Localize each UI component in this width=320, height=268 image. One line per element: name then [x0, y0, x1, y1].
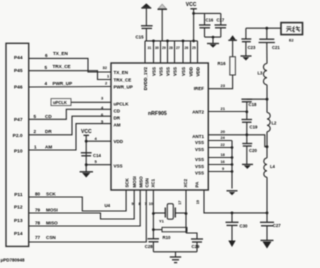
svg-text:MOSI: MOSI	[46, 207, 58, 212]
capacitor C19	[242, 112, 258, 135]
ground below C14	[80, 165, 93, 178]
svg-text:CD: CD	[114, 108, 121, 113]
wire ANT2	[208, 111, 247, 113]
svg-text:9: 9	[132, 202, 134, 206]
svg-text:P10: P10	[14, 149, 23, 155]
svg-text:C19: C19	[250, 125, 258, 130]
antenna box	[281, 23, 303, 43]
junction dots on top bus	[152, 40, 155, 43]
svg-text:VSS: VSS	[195, 157, 204, 162]
svg-text:L2: L2	[272, 121, 278, 126]
wire VDD_PA	[204, 190, 267, 213]
svg-text:26: 26	[185, 46, 189, 50]
svg-text:25: 25	[192, 46, 196, 50]
inductor L2	[267, 99, 277, 147]
svg-text:TX_EN: TX_EN	[114, 70, 129, 75]
svg-text:19: 19	[196, 200, 200, 204]
capacitor C18	[241, 99, 257, 112]
svg-text:C30: C30	[240, 223, 248, 228]
svg-text:MISO: MISO	[46, 220, 58, 225]
wire CSN	[29, 190, 147, 242]
inductor L3	[258, 64, 268, 100]
svg-text:AM: AM	[45, 144, 52, 149]
svg-text:μPD780948: μPD780948	[1, 258, 26, 263]
node VDD junction	[85, 140, 88, 143]
svg-text:VSS: VSS	[158, 67, 163, 76]
svg-text:ANT2: ANT2	[192, 109, 204, 114]
wire XC1 column	[152, 190, 154, 239]
capacitor C15	[136, 26, 153, 41]
svg-text:CSN: CSN	[144, 178, 149, 187]
svg-text:Y1: Y1	[159, 219, 165, 224]
svg-text:CSN: CSN	[46, 235, 56, 240]
VSS bus vertical	[231, 141, 233, 189]
svg-text:21: 21	[221, 106, 226, 111]
ground symbol above VSS bus	[158, 4, 168, 41]
svg-text:uPCLK: uPCLK	[114, 101, 130, 106]
svg-text:P45: P45	[14, 68, 23, 74]
svg-text:TRX_CE: TRX_CE	[114, 77, 132, 82]
wire TX_EN	[29, 58, 111, 72]
capacitor C23	[241, 28, 256, 56]
svg-text:77: 77	[35, 235, 41, 240]
wire MOSI	[29, 190, 135, 219]
wire C18 top to node A	[247, 98, 267, 100]
capacitor C27	[260, 213, 281, 240]
svg-text:C29: C29	[192, 244, 200, 249]
wire VCC to C16 C17	[194, 12, 221, 14]
ground top-left above C15	[141, 3, 151, 25]
junction dot crystal left	[152, 212, 155, 215]
svg-text:32: 32	[103, 65, 108, 70]
svg-text:3: 3	[101, 96, 104, 101]
svg-text:VSS: VSS	[181, 67, 186, 76]
capacitor C16	[199, 13, 214, 37]
svg-text:L3: L3	[258, 71, 264, 76]
svg-text:VCC: VCC	[186, 2, 197, 8]
svg-text:TX_EN: TX_EN	[53, 51, 68, 56]
svg-text:PA: PA	[195, 181, 200, 188]
wire ANT1	[208, 135, 267, 147]
wire uPCLK	[71, 101, 111, 103]
svg-text:PWR_UP: PWR_UP	[53, 81, 73, 86]
wire VSS to chip	[86, 164, 111, 166]
inductor L4	[264, 147, 276, 213]
svg-text:VSS: VSS	[165, 67, 170, 76]
svg-text:VDD: VDD	[114, 139, 124, 144]
svg-text:7: 7	[145, 202, 147, 206]
svg-text:DR: DR	[45, 129, 52, 134]
svg-text:nRF905: nRF905	[148, 111, 167, 117]
svg-text:MOSI: MOSI	[132, 176, 137, 187]
wire MISO	[29, 190, 141, 226]
svg-text:P12: P12	[14, 204, 23, 210]
svg-text:C27: C27	[273, 223, 281, 228]
wire IREF	[208, 75, 232, 89]
node junction C30	[231, 212, 234, 215]
node A junction	[266, 98, 269, 101]
svg-text:C20: C20	[249, 148, 257, 153]
svg-text:AM: AM	[114, 123, 121, 128]
svg-text:20: 20	[221, 129, 226, 134]
svg-text:80: 80	[35, 191, 41, 196]
svg-text:TRX_CE: TRX_CE	[53, 64, 71, 69]
capacitor C21	[259, 28, 281, 63]
wire antenna node	[246, 27, 281, 29]
wire SCK	[29, 190, 126, 211]
VCC supply feed	[186, 2, 197, 41]
wire VDD to chip	[86, 140, 111, 142]
ground below C27	[261, 240, 274, 248]
svg-text:E2: E2	[289, 39, 294, 43]
svg-text:78: 78	[35, 220, 41, 225]
svg-text:XC2: XC2	[183, 178, 188, 187]
svg-text:DVDD_1V2: DVDD_1V2	[143, 67, 148, 91]
svg-text:4: 4	[95, 136, 98, 141]
svg-text:6: 6	[45, 53, 48, 58]
pin stub VSS	[167, 41, 169, 63]
wire CD	[29, 109, 111, 119]
nRF905 U2 box	[111, 63, 208, 190]
svg-text:P14: P14	[14, 231, 23, 237]
svg-text:28: 28	[169, 46, 173, 50]
pin stub DVDD_1V2	[144, 41, 146, 63]
svg-text:uPCLK: uPCLK	[53, 100, 67, 105]
capacitor C20	[242, 135, 257, 164]
svg-text:PWR_UP: PWR_UP	[114, 85, 133, 90]
svg-text:VDD: VDD	[195, 66, 200, 76]
junction dot R10 left	[152, 228, 155, 231]
svg-text:L4: L4	[270, 164, 276, 169]
svg-text:P46: P46	[14, 84, 23, 90]
svg-text:23: 23	[221, 83, 226, 88]
svg-text:C18: C18	[249, 102, 257, 107]
junction dot crystal right	[185, 212, 188, 215]
capacitor C29	[191, 239, 203, 252]
svg-text:22: 22	[221, 143, 225, 147]
ground arrow above R16	[228, 35, 237, 57]
svg-text:P47: P47	[14, 117, 23, 123]
node B junction	[266, 145, 269, 148]
svg-text:P11: P11	[14, 192, 23, 198]
svg-text:P44: P44	[14, 55, 23, 61]
svg-text:CD: CD	[45, 114, 52, 119]
pin stub VDD	[190, 41, 192, 63]
top VSS bus	[145, 40, 198, 42]
svg-text:P2.0: P2.0	[13, 133, 23, 139]
svg-text:ANT1: ANT1	[192, 134, 204, 139]
svg-text:VSS: VSS	[195, 147, 204, 152]
ground arrow below C30	[228, 241, 235, 248]
ground below C20	[242, 164, 253, 169]
VCC terminal tick	[84, 134, 90, 136]
ground crystal	[170, 252, 181, 263]
svg-text:16: 16	[221, 160, 225, 164]
svg-text:8: 8	[139, 202, 141, 206]
svg-text:R10: R10	[163, 235, 171, 240]
wire DR	[29, 116, 111, 135]
capacitor C28	[145, 239, 159, 252]
wire XC2 column	[185, 190, 187, 233]
svg-text:C14: C14	[93, 153, 101, 158]
svg-text:P13: P13	[14, 218, 23, 224]
svg-text:17: 17	[178, 201, 182, 205]
svg-text:VSS: VSS	[195, 171, 204, 176]
pin stub VDD	[197, 41, 199, 63]
svg-text:C23: C23	[248, 45, 256, 50]
svg-text:2: 2	[105, 81, 108, 86]
svg-text:C15: C15	[136, 35, 145, 40]
net label box uPCLK	[51, 99, 71, 106]
pin stub VSS	[153, 41, 155, 63]
svg-text:5: 5	[34, 114, 37, 119]
node VSS junction	[85, 163, 88, 166]
svg-text:5: 5	[95, 159, 98, 164]
MCU U1 box	[6, 43, 29, 246]
svg-text:24: 24	[221, 136, 226, 140]
svg-text:10: 10	[149, 202, 153, 206]
svg-text:VSS: VSS	[151, 67, 156, 76]
svg-text:XC1: XC1	[151, 178, 156, 187]
svg-text:VSS: VSS	[195, 164, 204, 169]
svg-text:MISO: MISO	[138, 176, 143, 188]
svg-text:VSS: VSS	[114, 163, 123, 168]
svg-text:31: 31	[148, 46, 152, 50]
ground below C16 C17	[207, 37, 219, 48]
resistor R16	[218, 57, 236, 75]
svg-text:C16: C16	[206, 18, 214, 23]
svg-text:2: 2	[34, 129, 37, 134]
svg-text:1: 1	[34, 144, 37, 149]
wire C16 C17 join	[205, 36, 221, 38]
svg-text:IREF: IREF	[194, 86, 205, 91]
svg-text:U4: U4	[105, 203, 111, 208]
crystal Y1	[153, 204, 186, 224]
svg-text:27: 27	[176, 46, 180, 50]
svg-text:4: 4	[45, 81, 48, 86]
svg-text:VCC: VCC	[81, 129, 92, 135]
resistor R10	[153, 227, 187, 239]
svg-text:VDD: VDD	[188, 66, 193, 76]
ground below C23	[241, 56, 252, 61]
wire VCC vertical	[85, 135, 87, 166]
svg-text:C17: C17	[217, 18, 225, 23]
node junction C27	[266, 212, 269, 215]
capacitor C30	[226, 213, 248, 241]
capacitor C17	[215, 13, 227, 37]
svg-text:VSS: VSS	[172, 67, 177, 76]
svg-text:1: 1	[107, 74, 110, 79]
wire VSS pin 18	[208, 157, 232, 159]
pin stub VSS	[182, 41, 184, 63]
svg-text:C28: C28	[145, 244, 153, 249]
svg-text:9: 9	[222, 167, 224, 171]
svg-text:R16: R16	[218, 61, 227, 66]
pin stub VSS	[174, 41, 176, 63]
wire VSS pin 9	[208, 171, 232, 173]
ground below VSS bus	[227, 191, 238, 195]
wire VSS pin 16	[208, 164, 232, 166]
node VCC junction	[192, 12, 195, 15]
svg-text:79: 79	[35, 207, 41, 212]
wire to C29	[186, 233, 197, 239]
node antenna junction	[265, 27, 268, 30]
wire AM	[29, 124, 111, 150]
wire VSS pin 24	[208, 140, 232, 142]
svg-text:30: 30	[155, 46, 159, 50]
node ANT2 junction	[245, 110, 248, 113]
wire TRX_CE	[29, 71, 111, 80]
svg-text:DR: DR	[114, 115, 121, 120]
svg-text:18: 18	[221, 153, 225, 157]
svg-text:29: 29	[162, 46, 166, 50]
wire PWR_UP	[29, 86, 111, 89]
svg-text:SCK: SCK	[46, 191, 56, 196]
wire VSS pin 22	[208, 147, 232, 149]
wire crystal bottom	[153, 251, 197, 253]
svg-text:C21: C21	[272, 45, 280, 50]
pin stub VSS	[160, 41, 162, 63]
capacitor C14	[81, 153, 102, 158]
svg-text:VSS: VSS	[195, 140, 204, 145]
junction dots VSS bus	[231, 146, 234, 149]
svg-text:SCK: SCK	[124, 177, 129, 187]
svg-text:5: 5	[45, 65, 48, 70]
node ANT1 junction	[245, 133, 248, 136]
